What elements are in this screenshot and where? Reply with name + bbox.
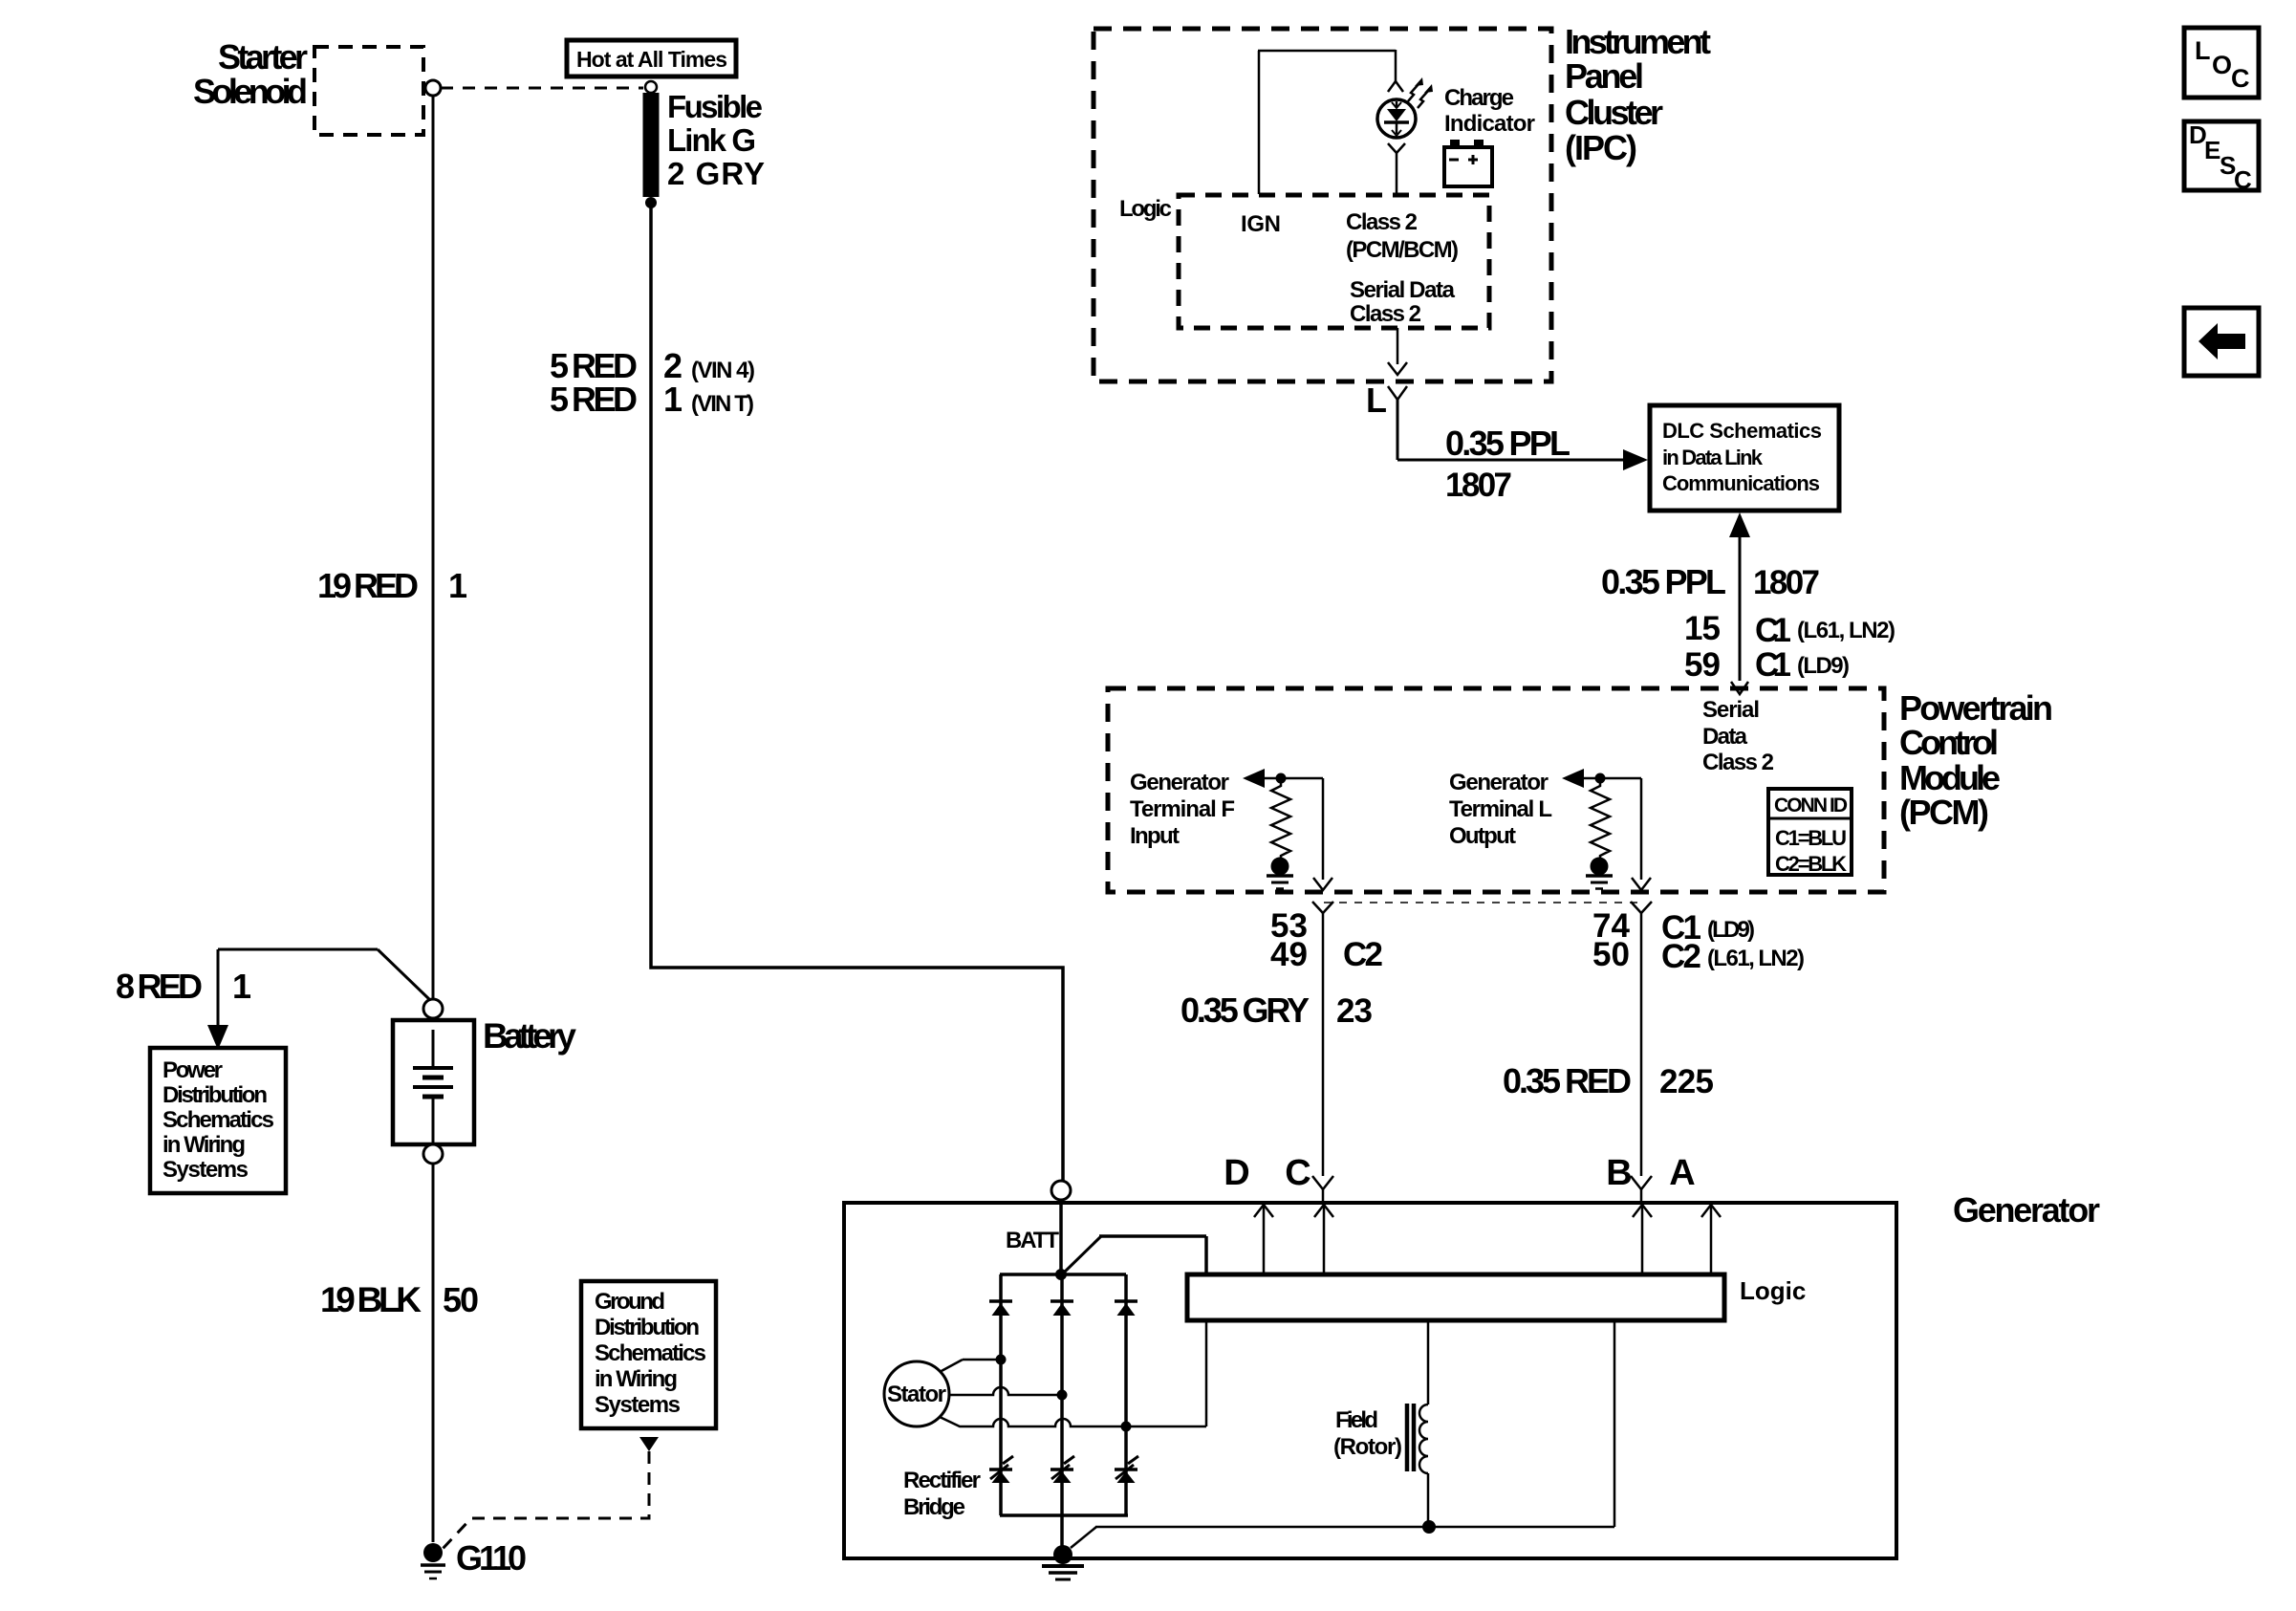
svg-text:E: E [2204,136,2220,164]
label 5 RED 1 (VIN T) [550,380,754,419]
node generator BATT terminal [1051,1181,1071,1200]
svg-text:Powertrain: Powertrain [1899,688,2053,728]
label fusible link G 2 GRY [667,89,765,191]
label Generator [1953,1190,2100,1230]
label 8 RED 1 [116,967,251,1006]
connector female at generator B [1631,1176,1652,1202]
svg-text:1: 1 [232,967,251,1006]
wire battery to G110 [432,1164,435,1542]
power distribution schematics box [150,1048,286,1193]
label pin A [1669,1153,1695,1193]
CONN ID table [1768,789,1852,876]
arrow pin A internal [1701,1205,1721,1273]
svg-text:Communications: Communications [1662,471,1820,495]
svg-text:Starter: Starter [218,37,308,76]
svg-text:DLC Schematics: DLC Schematics [1662,419,1822,443]
svg-text:Generator: Generator [1130,770,1229,795]
arrow pin C internal [1314,1205,1333,1273]
node generator ground junction [1053,1545,1072,1564]
starter solenoid label [193,37,308,111]
svg-text:Class 2: Class 2 [1702,750,1774,775]
svg-text:C1: C1 [1755,612,1791,649]
svg-text:Data: Data [1702,724,1748,750]
svg-text:50: 50 [443,1280,479,1319]
generator logic module [1187,1274,1724,1320]
arrow from ground distribution box (filled) [639,1437,659,1451]
svg-text:Class 2: Class 2 [1350,301,1421,327]
svg-text:Cluster: Cluster [1565,93,1663,132]
wire serial data out of logic [1397,328,1399,364]
svg-text:(LD9): (LD9) [1707,917,1755,943]
node resistor R1 to ground [1271,858,1289,876]
connector C2 boundary (thin dashed) [1324,902,1642,903]
label Serial Data Class 2 (IPC) [1350,277,1456,327]
arrow pin B internal [1633,1205,1652,1273]
wire rectifier column 3 [1124,1274,1128,1515]
svg-text:(PCM): (PCM) [1899,793,1989,832]
wire terminal F output to pin 53 [1322,778,1325,880]
svg-text:Instrument: Instrument [1565,22,1711,61]
svg-text:A: A [1669,1153,1695,1193]
charge indicator lamp U1 [1377,99,1416,138]
svg-text:(VIN T): (VIN T) [691,391,754,417]
fusible link G element [643,93,660,197]
node battery positive terminal [423,999,443,1018]
inductor field rotor coil [1407,1404,1428,1527]
svg-text:BATT: BATT [1006,1228,1059,1253]
arrow Generator Terminal L (filled left) [1562,769,1584,788]
starter solenoid S1 (dashed box) [314,47,423,135]
svg-text:C: C [2234,165,2252,194]
arrow pin 53 at PCM edge [1313,878,1332,890]
node resistor R2 to ground [1591,858,1609,876]
svg-text:Battery: Battery [483,1016,576,1056]
svg-text:1: 1 [448,566,467,605]
svg-text:Generator: Generator [1953,1190,2100,1230]
wire starter solenoid to fusible link (dashed) [441,87,643,90]
label IGN [1241,211,1281,237]
wire stator phase C [940,1417,1126,1426]
node stator phase B to column 2 [1057,1390,1068,1401]
node stator phase C to column 3 [1121,1422,1132,1432]
svg-text:Rectifier: Rectifier [903,1468,981,1493]
wire battery feed branch to power distribution [218,949,430,1027]
label 1807 (horizontal run) [1445,467,1512,504]
wire BATT into generator [1059,1200,1063,1272]
label pin 49 C2 [1270,936,1383,973]
svg-text:(VIN 4): (VIN 4) [691,358,755,383]
connector female at generator C [1312,1176,1333,1202]
wire PCM serial data to DLC [1739,535,1742,681]
wire ground distribution to G110 (dashed) [442,1451,649,1550]
wire terminal L node [1584,777,1641,780]
svg-text:C1: C1 [1755,646,1791,684]
label pin 53 [1270,907,1308,945]
wire rectifier bottom rail [1000,1513,1128,1517]
arrow pin D internal [1254,1205,1273,1273]
wire terminal F node [1265,777,1323,780]
wire L to DLC [1397,400,1623,460]
svg-text:Distribution: Distribution [162,1082,268,1108]
svg-text:Charge: Charge [1444,85,1514,111]
svg-text:Output: Output [1449,823,1516,849]
svg-text:Control: Control [1899,723,1999,762]
svg-text:8 RED: 8 RED [116,967,203,1006]
connector female below charge indicator [1388,143,1405,194]
generator box [844,1203,1896,1558]
wire PCM pin 50 to generator B [1640,913,1643,1176]
wire stator phase B [949,1387,1062,1395]
svg-text:Module: Module [1899,758,2001,797]
diode D6 (avalanche bottom col3) [1115,1456,1138,1483]
ground (PCM internal, L) [1586,876,1613,889]
resistor R1 (PCM pull-up F) [1271,783,1290,859]
svg-text:Class 2: Class 2 [1346,209,1418,235]
svg-text:Power: Power [162,1057,223,1083]
svg-text:C2: C2 [1661,938,1701,975]
arrow Generator Terminal F (filled left) [1243,769,1265,788]
wire PCM pin 49 to generator C [1322,913,1325,1176]
svg-text:Stator: Stator [887,1382,946,1407]
battery B1 [393,1020,474,1144]
svg-text:1807: 1807 [1445,467,1512,504]
svg-text:C2: C2 [1343,936,1383,973]
label Powertrain Control Module (PCM) [1899,688,2053,832]
svg-text:(IPC): (IPC) [1565,128,1637,167]
svg-text:D: D [1224,1153,1249,1193]
label pin D [1224,1153,1249,1193]
LOC icon [2184,28,2259,98]
label 0.35 RED 225 [1503,1061,1714,1100]
label Rectifier Bridge [903,1468,981,1520]
diode D3 (rectifier top col3) [1115,1301,1137,1316]
node BATT junction [1055,1269,1067,1280]
svg-text:Schematics: Schematics [595,1340,706,1366]
svg-text:50: 50 [1592,936,1630,973]
svg-text:in Data Link: in Data Link [1662,446,1764,469]
label 1807 (vertical run) [1753,564,1820,601]
svg-text:B: B [1606,1153,1632,1193]
label pin B [1606,1153,1632,1193]
diode D1 (rectifier top col1) [989,1301,1012,1316]
label 5 RED 2 (VIN 4) [550,346,755,385]
svg-text:Link G: Link G [667,122,756,158]
label pin C [1285,1153,1310,1193]
node terminal F junction [1276,773,1287,784]
Hot at All Times banner [567,40,736,76]
svg-text:C: C [1285,1153,1310,1193]
label Instrument Panel Cluster (IPC) [1565,22,1711,167]
label 0.35 PPL (vertical run) [1601,562,1726,601]
svg-text:Input: Input [1130,823,1180,849]
svg-text:in Wiring: in Wiring [595,1366,678,1392]
label BATT [1006,1228,1059,1253]
svg-text:1: 1 [663,380,682,419]
svg-text:(PCM/BCM): (PCM/BCM) [1346,237,1459,263]
svg-text:CONN ID: CONN ID [1774,795,1848,816]
wire logic to field coil top [1427,1321,1430,1404]
svg-text:(L61, LN2): (L61, LN2) [1707,946,1805,971]
ground G110 [421,1543,445,1578]
svg-text:C1=BLU: C1=BLU [1775,826,1847,850]
svg-text:59: 59 [1684,646,1721,684]
node field coil return [1422,1520,1436,1534]
label Logic (IPC) [1119,196,1172,222]
svg-text:(LD9): (LD9) [1797,653,1850,679]
svg-text:IGN: IGN [1241,211,1281,237]
svg-text:15: 15 [1684,610,1721,647]
powertrain control module PCM (dashed box) [1108,688,1884,892]
DESC icon [2184,120,2259,194]
svg-text:Systems: Systems [595,1392,681,1418]
ground (generator case) [1042,1566,1084,1579]
svg-text:Serial Data: Serial Data [1350,277,1456,303]
DLC schematics box [1650,405,1839,511]
svg-text:2 GRY: 2 GRY [667,156,765,191]
connector female at PCM top edge [1731,682,1748,694]
svg-text:0.35 PPL: 0.35 PPL [1445,424,1570,463]
diode D4 (avalanche bottom col1) [989,1456,1013,1483]
wire rectifier column 2 [1060,1274,1064,1515]
label Charge Indicator [1444,85,1535,137]
svg-text:Hot at All Times: Hot at All Times [576,47,727,72]
label Logic (generator) [1740,1276,1806,1305]
connector C2 female pin 50 [1631,902,1652,913]
node stator phase A to column 1 [996,1355,1007,1365]
svg-text:L: L [2195,36,2211,65]
svg-text:19 RED: 19 RED [317,566,419,605]
wire stator phase C to logic [1126,1321,1206,1426]
svg-text:0.35 GRY: 0.35 GRY [1180,991,1310,1030]
arrow pin 74 at PCM edge [1632,878,1651,890]
arrow into DLC box (filled) [1623,449,1648,470]
svg-text:C: C [2231,64,2250,93]
connector female above charge indicator [1388,81,1403,92]
svg-text:Terminal L: Terminal L [1449,796,1552,822]
svg-text:Indicator: Indicator [1444,111,1535,137]
svg-text:C2=BLK: C2=BLK [1775,852,1847,876]
svg-text:in Wiring: in Wiring [162,1132,246,1158]
svg-text:49: 49 [1270,936,1308,973]
svg-text:Panel: Panel [1565,56,1644,96]
label Generator Terminal F Input [1130,770,1235,849]
svg-text:Terminal F: Terminal F [1130,796,1235,822]
resistor R2 (PCM pull-up L) [1591,783,1610,859]
label pin 50 C2 (L61, LN2) [1592,936,1805,975]
svg-text:0.35 RED: 0.35 RED [1503,1061,1632,1100]
back arrow icon [2184,308,2259,376]
svg-text:(Rotor): (Rotor) [1333,1434,1402,1460]
node battery negative terminal [423,1144,443,1164]
svg-text:Ground: Ground [595,1289,665,1315]
node terminal L junction [1595,773,1606,784]
label Field (Rotor) [1333,1407,1402,1460]
label 19 BLK 50 [320,1280,479,1319]
svg-text:G110: G110 [456,1538,527,1578]
label Serial Data Class 2 (PCM) [1702,697,1774,775]
label Class 2 (PCM/BCM) [1346,209,1459,263]
charge indicator light rays [1408,77,1433,108]
stator winding [884,1361,949,1426]
connector C2 female pin 49 [1312,902,1333,913]
label pin 15 C1 (L61, LN2) [1684,610,1895,649]
wire ground node to field return [1071,1527,1614,1548]
wire IGN feed inside IPC [1258,51,1396,194]
svg-text:Fusible: Fusible [667,89,763,124]
label Battery [483,1016,576,1056]
label L [1366,381,1387,420]
svg-text:19 BLK: 19 BLK [320,1280,422,1319]
svg-text:1807: 1807 [1753,564,1820,601]
wire column 2 to ground node [1060,1515,1064,1546]
wire BATT to logic input [1064,1236,1206,1273]
svg-text:23: 23 [1336,992,1373,1030]
node fusible link bottom [645,197,657,208]
label Generator Terminal L Output [1449,770,1552,849]
label pin 74 C1 (LD9) [1592,907,1755,947]
svg-text:O: O [2212,51,2232,79]
wire terminal L output to pin 74 [1640,778,1643,880]
wire rectifier column 1 [999,1274,1003,1515]
svg-text:L: L [1366,381,1387,420]
svg-text:Serial: Serial [1702,697,1760,723]
battery symbol icon (IPC) [1444,140,1492,186]
svg-text:Solenoid: Solenoid [193,72,308,111]
ground (PCM internal, F) [1267,876,1293,889]
ground distribution schematics box [581,1281,716,1428]
wire logic to field drive [1614,1321,1616,1527]
svg-text:Distribution: Distribution [595,1315,700,1340]
wire stator phase A [940,1360,1001,1372]
svg-text:Logic: Logic [1119,196,1172,222]
label 0.35 GRY 23 [1180,991,1373,1030]
svg-text:5 RED: 5 RED [550,380,638,419]
svg-text:Systems: Systems [162,1157,249,1183]
svg-text:Generator: Generator [1449,770,1549,795]
svg-text:225: 225 [1659,1063,1714,1100]
wire rectifier top rail [1000,1273,1126,1276]
connector L female below IPC [1388,386,1407,400]
label pin 59 C1 (LD9) [1684,646,1850,684]
svg-text:0.35 PPL: 0.35 PPL [1601,562,1726,601]
node starter solenoid B+ terminal [425,80,441,96]
instrument panel cluster IPC (dashed box) [1094,29,1551,381]
label 0.35 PPL (horizontal run) [1445,424,1570,463]
wire fusible link to generator BATT terminal [651,203,1063,1181]
diode D5 (avalanche bottom col2) [1051,1456,1074,1483]
diode D2 (rectifier top col2) [1051,1301,1073,1316]
IPC logic module (dashed box) [1179,195,1489,328]
svg-text:(L61, LN2): (L61, LN2) [1797,618,1895,643]
label 19 RED 1 [317,566,467,605]
node fusible link top [645,81,657,93]
arrow to power distribution (filled) [207,1025,228,1050]
wire starter solenoid to battery [432,96,435,999]
svg-text:Logic: Logic [1740,1276,1806,1305]
arrow serial data at IPC edge [1388,362,1407,375]
svg-text:Bridge: Bridge [903,1494,965,1520]
wire to charge indicator [1395,50,1397,81]
svg-text:Schematics: Schematics [162,1107,274,1133]
label G110 [456,1538,527,1578]
svg-text:Field: Field [1335,1407,1378,1433]
arrow up into DLC (filled) [1729,512,1750,537]
